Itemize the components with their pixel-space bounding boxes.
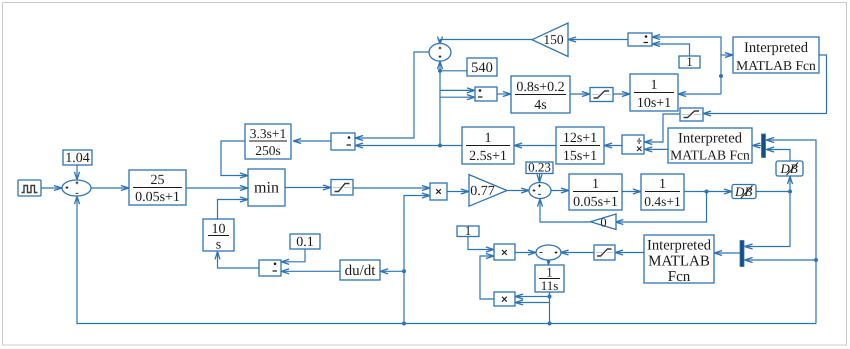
svg-text:3.3s+1: 3.3s+1 <box>250 126 287 141</box>
svg-text:1: 1 <box>659 177 666 192</box>
svg-text:1: 1 <box>651 78 658 93</box>
svg-text:2.5s+1: 2.5s+1 <box>469 149 507 164</box>
svg-text:Interpreted: Interpreted <box>647 238 712 254</box>
svg-text:540: 540 <box>471 60 493 76</box>
svg-text:11s: 11s <box>541 278 559 293</box>
svg-text:DB: DB <box>780 161 798 176</box>
svg-text:min: min <box>254 180 279 197</box>
svg-text:du/dt: du/dt <box>345 263 377 279</box>
svg-text:15s+1: 15s+1 <box>563 149 597 164</box>
svg-text:0.4s+1: 0.4s+1 <box>644 194 681 209</box>
svg-text:1: 1 <box>485 131 492 146</box>
svg-text:0.23: 0.23 <box>528 160 551 175</box>
svg-text:1.04: 1.04 <box>65 151 90 166</box>
svg-text:0: 0 <box>600 215 606 229</box>
svg-text:s: s <box>216 238 221 253</box>
svg-text:12s+1: 12s+1 <box>563 131 597 146</box>
svg-text:10s+1: 10s+1 <box>637 96 671 111</box>
svg-text:0.05s+1: 0.05s+1 <box>135 190 180 205</box>
svg-text:1: 1 <box>686 54 693 69</box>
svg-text:Interpreted: Interpreted <box>744 40 809 56</box>
svg-text:0.05s+1: 0.05s+1 <box>573 195 618 210</box>
svg-text:150: 150 <box>543 32 564 47</box>
svg-text:10: 10 <box>212 222 226 237</box>
svg-text:MATLAB Fcn: MATLAB Fcn <box>736 58 816 73</box>
svg-text:4s: 4s <box>534 98 546 113</box>
svg-text:DB: DB <box>734 184 752 199</box>
svg-text:1: 1 <box>592 177 599 192</box>
svg-text:25: 25 <box>151 173 165 188</box>
svg-text:0.77: 0.77 <box>470 184 495 199</box>
svg-text:Fcn: Fcn <box>668 269 691 285</box>
svg-text:0.1: 0.1 <box>296 235 314 250</box>
svg-text:MATLAB Fcn: MATLAB Fcn <box>670 148 750 163</box>
svg-text:0.8s+0.2: 0.8s+0.2 <box>516 80 564 95</box>
svg-text:Interpreted: Interpreted <box>678 131 743 147</box>
svg-text:250s: 250s <box>255 143 281 158</box>
svg-text:MATLAB: MATLAB <box>648 254 710 270</box>
svg-text:1: 1 <box>465 223 472 238</box>
